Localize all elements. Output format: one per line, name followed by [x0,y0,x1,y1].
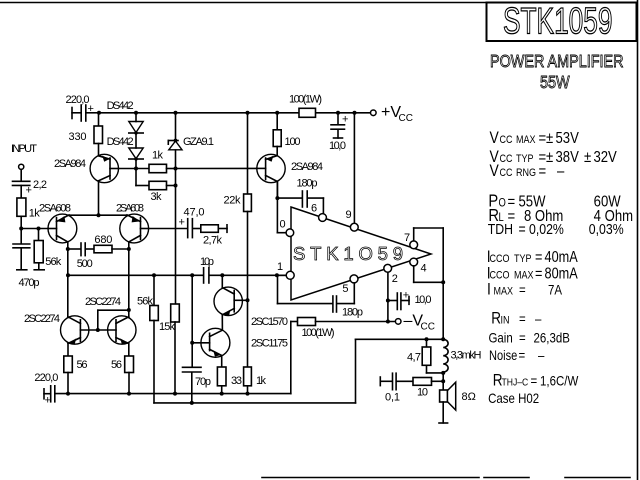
wire mirror base tie [96,308,131,332]
spec Rthj-c line [493,371,579,390]
svg-text:2SA984: 2SA984 [54,158,86,170]
spec Noise line [489,347,545,363]
resistor 100 [273,113,300,154]
label 2SA984 (left) [54,158,86,170]
spec Vcc typ line [490,148,618,167]
svg-text:15k: 15k [159,321,176,333]
resistor 2,7k [201,225,227,247]
svg-text:10,0: 10,0 [415,294,432,306]
svg-text:8Ω: 8Ω [462,391,476,403]
label 2SA984 (right) [291,161,323,173]
ground speaker [439,402,448,423]
svg-text:1: 1 [277,261,283,273]
capacitor 220,0 (bottom) [34,372,58,407]
diode D2 DS442 [129,133,143,169]
transistor Q4 2SA608 [120,214,149,243]
svg-text:180p: 180p [342,307,363,319]
resistor 4,7 [407,339,443,373]
svg-text:5: 5 [342,283,348,295]
svg-text:10: 10 [417,387,428,399]
wire Q4 collector down [127,242,131,318]
svg-text:2SC1175: 2SC1175 [251,338,288,350]
transistor Q7 2SC1570 [214,273,250,330]
terminal +Vcc [371,104,413,124]
svg-text:47,0: 47,0 [184,207,205,219]
spec Icco max line [487,264,578,283]
transistor Q3 2SA608 [48,214,77,243]
wire VAS input riser [190,273,194,367]
capacitor 470p [13,229,40,290]
svg-text:STK1O59: STK1O59 [293,243,403,264]
svg-text:1k: 1k [152,150,164,162]
resistor 3k bias [136,169,178,204]
resistor 22k [224,113,252,300]
resistor 1k bias [149,150,178,173]
wire output node [441,373,445,390]
transistor Q6 2SC2274 [98,316,136,345]
label DS442 (top) [107,100,134,112]
resistor 33 [217,356,242,394]
svg-text:56: 56 [77,359,88,371]
label 220,0 [66,94,90,106]
svg-text:0,1: 0,1 [385,392,400,404]
svg-text:500: 500 [77,258,93,270]
svg-text:100: 100 [285,136,301,148]
svg-text:TDH=0,02%0,03%: TDH=0,02%0,03% [488,221,624,237]
wire Q4 base to 47,0 [149,228,188,230]
resistor 56k input [34,229,62,270]
frame right border [637,0,639,480]
label 2SC1570 [251,316,288,328]
svg-text:470p: 470p [19,277,40,289]
spec TDH line [488,221,624,237]
svg-text:2SA608: 2SA608 [116,203,144,215]
svg-text:DS442: DS442 [107,136,134,148]
svg-text:56: 56 [111,359,122,371]
svg-text:56k: 56k [137,296,154,308]
svg-text:Case H02: Case H02 [488,390,539,406]
title box [487,3,637,42]
wire ground bus lower [154,401,356,405]
svg-text:2SA608: 2SA608 [39,203,71,215]
pin 1 [275,261,294,279]
frame bottom dashes [262,477,630,479]
label 2SC2274 (top) [85,296,121,308]
subtitle 55W [540,73,570,93]
svg-text:220,0: 220,0 [66,94,90,106]
wire +Vcc rail [99,112,371,114]
svg-text:180p: 180p [297,178,318,190]
spec Vcc rng line [490,162,566,181]
svg-text:10p: 10p [200,256,214,268]
terminal input [19,164,24,180]
capacitor 500 [68,243,94,270]
svg-text:10,0: 10,0 [329,140,346,152]
op-amp STK1059 triangle [291,207,431,300]
svg-text:CC: CC [399,113,413,124]
svg-text:DS442: DS442 [107,100,134,112]
svg-text:3,3mkH: 3,3mkH [451,350,482,362]
resistor 56 (right) [111,343,134,393]
svg-text:2SC2274: 2SC2274 [24,313,60,325]
label 2SA608 (left) [39,203,71,215]
svg-text:680: 680 [94,234,112,246]
wire ground bus upper [55,392,290,396]
resistor 56 (left) [64,343,88,393]
wire Q2 base line [176,167,257,169]
spec Vcc max line [490,129,580,148]
resistor 680 [94,234,129,253]
svg-text:100(1W): 100(1W) [289,94,322,106]
resistor 15k [159,304,179,394]
pin 0 [280,219,294,237]
svg-text:7: 7 [404,232,410,244]
transistor Q2 2SA984 [257,154,286,198]
svg-text:33: 33 [231,375,242,387]
svg-text:22k: 22k [224,195,242,207]
spec Gain line [489,329,570,345]
capacitor 180p (feedback) [278,275,364,318]
terminal -Vcc [395,313,435,333]
pin 9 [346,209,359,231]
svg-text:2SC1570: 2SC1570 [251,316,288,328]
svg-text:55W: 55W [540,73,570,93]
zener GZA9.1 [168,113,182,304]
svg-text:+: + [26,185,32,197]
resistor 10 [413,378,443,399]
label INPUT [11,143,37,155]
capacitor 2,2 [13,179,48,198]
svg-text:100(1W): 100(1W) [302,327,335,339]
wire Q3 collector down [66,242,70,318]
svg-text:0: 0 [280,219,286,231]
svg-text:220,0: 220,0 [34,372,58,384]
svg-text:+: + [342,114,348,126]
wire pin7 to output rail [414,228,444,339]
label GZA9.1 [183,136,214,148]
resistor 100(1W) top [289,94,322,118]
pin 6 [311,203,326,222]
resistor 330 [69,113,103,156]
resistor 56k feedback [137,275,158,403]
wire pin4 to output rail [414,266,446,284]
transistor Q8 2SC1175 [192,328,230,357]
pin 7 [404,232,418,249]
resistor 1k input [17,198,40,229]
svg-text:2,7k: 2,7k [203,235,223,247]
capacitor 10p [66,256,286,283]
pin 5 [342,275,358,295]
svg-text:9: 9 [346,209,352,221]
transistor Q5 2SC2274 [60,316,97,345]
svg-text:330: 330 [69,131,87,143]
svg-text:STK1059: STK1059 [503,0,613,42]
title text STK1059 [503,0,613,42]
wire pin9 to +Vcc rail [353,113,355,223]
spec Imax line [487,280,562,299]
pin 4 [410,258,427,274]
svg-text:4,7: 4,7 [407,352,421,364]
inductor 3,3mkH [441,339,481,375]
wire diff pair emitter node [69,213,127,217]
capacitor 180p (top) [275,178,323,214]
wire input node to Q3 base [19,227,48,231]
capacitor C1 220,0 (top left) [72,103,99,121]
spec Icco typ line [487,248,578,267]
svg-text:CC: CC [421,322,435,333]
spec Po line [488,191,620,211]
spec Case line [488,390,539,406]
label 2SA608 (right) [116,203,144,215]
speaker 8 Ohm [440,382,476,410]
svg-text:70p: 70p [195,376,211,388]
svg-text:3k: 3k [151,191,163,203]
svg-text:56k: 56k [45,256,62,268]
spec RL line [488,206,633,226]
resistor 100(1W) lower [291,318,395,394]
svg-text:GZA9.1: GZA9.1 [183,136,214,148]
svg-text:1k: 1k [256,375,267,387]
svg-text:INPUT: INPUT [11,143,37,155]
diode D1 DS442 [129,113,143,135]
capacitor 47,0 [179,207,205,238]
svg-text:6: 6 [311,203,317,215]
svg-text:4: 4 [421,263,427,275]
svg-text:+: + [45,395,51,407]
resistor 1k (VAS) [244,300,267,393]
pin 2 [384,264,398,285]
frame top border [0,2,487,4]
subtitle POWER AMPLIFIER [490,52,623,72]
wire feedback line to output [356,337,446,403]
spec Rin line [491,309,542,328]
capacitor 10,0 (top, at +Vcc) [329,113,348,152]
svg-text:2,2: 2,2 [33,179,47,191]
capacitor 70p [183,367,212,403]
capacitor 10,0 (at -Vcc) [388,290,432,310]
wire pin0 net [277,198,286,233]
svg-text:+: + [403,290,409,302]
transistor Q1 2SA984 [90,154,118,215]
wire pin2 to -Vcc [386,272,390,323]
node dots on +Vcc rail [97,111,357,115]
svg-text:POWER AMPLIFIER: POWER AMPLIFIER [490,52,623,72]
label 2SC1175 [251,338,288,350]
wire Q1 base to bias resistors [119,167,150,171]
label 2SC2274 (left) [24,313,60,325]
svg-text:2: 2 [392,273,398,285]
label DS442 (lower) [107,136,134,148]
svg-text:2SA984: 2SA984 [291,161,323,173]
svg-text:2SC2274: 2SC2274 [85,296,121,308]
capacitor 0,1 [380,373,413,403]
